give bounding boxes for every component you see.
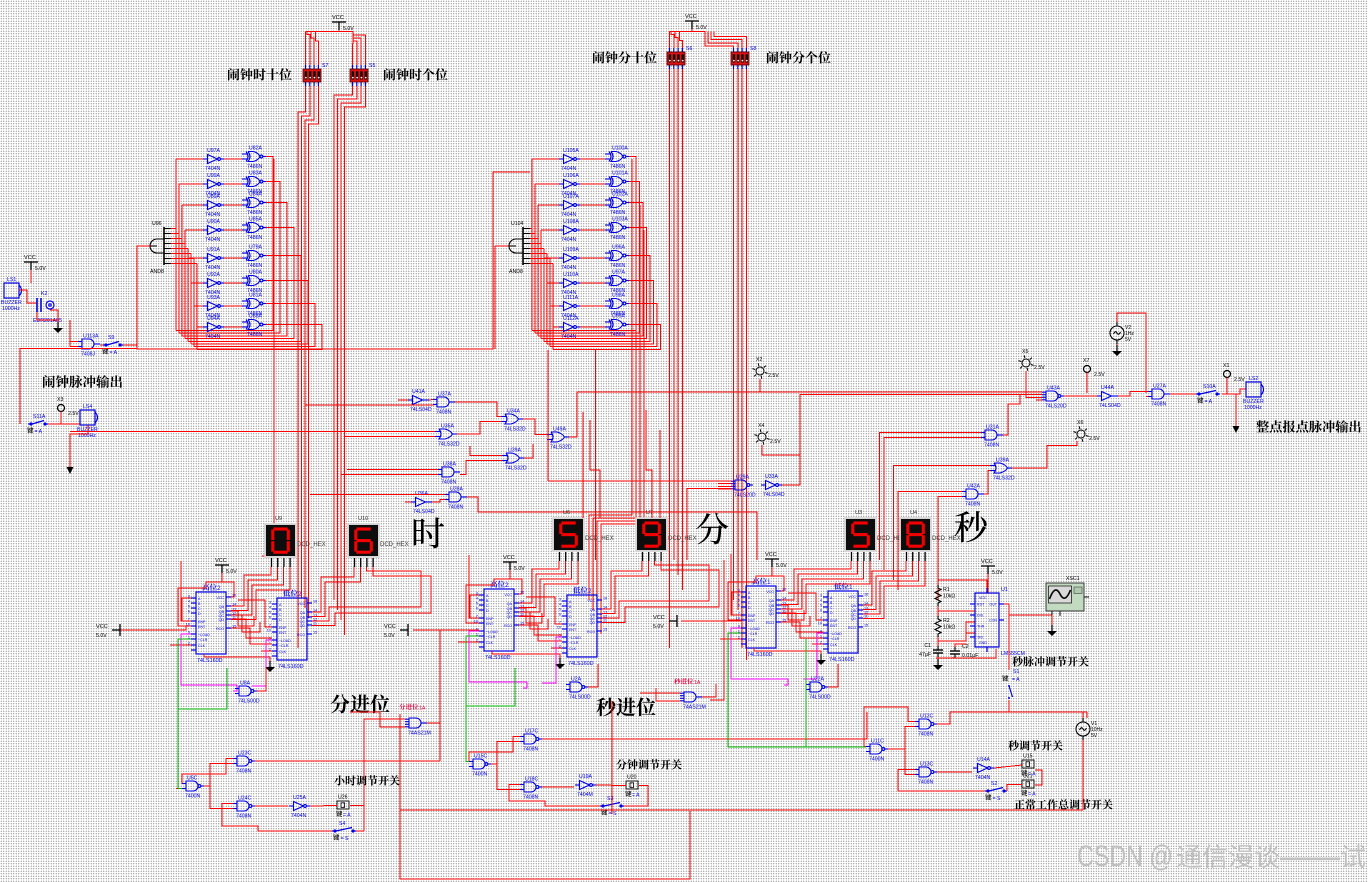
wire row 0 input feed (176, 158, 203, 160)
wire U104 output to alarm line (495, 245, 509, 247)
wire display1 pin 0 (519, 561, 559, 603)
svg-text:RCO: RCO (216, 627, 224, 631)
svg-text:U27A: U27A (1153, 384, 1167, 390)
svg-text:7408N: 7408N (918, 732, 934, 738)
AND gate U24C (233, 801, 255, 811)
wire S5 riser 3 (353, 38, 361, 65)
svg-text:QD: QD (851, 617, 857, 621)
wire S6 descender 1 (669, 69, 671, 648)
wire S7 descender 4 (309, 86, 319, 618)
svg-text:VCC: VCC (24, 255, 36, 261)
svg-text:7404N: 7404N (975, 775, 991, 781)
svg-text:74LS160D: 74LS160D (829, 657, 855, 663)
svg-text:U1: U1 (1001, 587, 1008, 593)
svg-text:QD: QD (769, 612, 775, 616)
wire VCC to counters (222, 570, 234, 597)
wire XOR row 7 output return (553, 325, 661, 350)
svg-text:U15C: U15C (474, 754, 488, 760)
wire display2 pin 2 (312, 567, 421, 621)
svg-text:= A: = A (1012, 677, 1020, 683)
counter IC 高位1 74LS160D (741, 586, 781, 648)
XOR gate U81A (242, 299, 266, 309)
wire display2 pin 1 (863, 561, 912, 610)
svg-text:U103A: U103A (612, 217, 628, 223)
svg-text:~LOAD: ~LOAD (830, 632, 842, 636)
wire display2 pin 3 (863, 561, 925, 619)
svg-text:QA: QA (219, 605, 225, 609)
svg-text:U14A: U14A (977, 757, 991, 763)
probe X1 (1224, 371, 1231, 378)
buzzer LS2 (1246, 382, 1264, 397)
switch U15 (1022, 760, 1034, 768)
svg-text:5.0V: 5.0V (35, 266, 46, 272)
svg-text:= A: = A (1205, 399, 1213, 405)
wire XOR row 0 output return (532, 157, 636, 331)
svg-text:U82A: U82A (249, 146, 263, 152)
svg-text:S8: S8 (750, 46, 756, 52)
svg-text:C: C (486, 604, 489, 608)
wire U29A inputs from bank2 bundle (718, 480, 731, 482)
inverter U97A (203, 155, 224, 164)
svg-text:U89A: U89A (207, 194, 221, 200)
inverter U89A (203, 201, 224, 210)
svg-text:~LOAD: ~LOAD (279, 639, 291, 643)
wire S8 descender 4 (745, 69, 747, 660)
svg-text:2: 2 (298, 591, 302, 598)
svg-text:74LS20D: 74LS20D (734, 493, 756, 499)
svg-text:CLK: CLK (830, 643, 838, 647)
svg-text:11: 11 (313, 622, 317, 626)
svg-text:U41A: U41A (412, 389, 426, 395)
svg-text:74LS04D: 74LS04D (1099, 403, 1121, 409)
switch U26 (337, 801, 349, 809)
XOR gate U101A (605, 177, 629, 187)
wire display2 pin 3 (602, 561, 719, 623)
svg-text:A: A (569, 600, 572, 604)
wire inverter to XOR row 6 (224, 305, 242, 307)
svg-text:U100A: U100A (612, 146, 628, 152)
svg-text:6: 6 (269, 616, 271, 620)
wire U113A output via S9 to long net (100, 344, 103, 346)
svg-text:7486N: 7486N (247, 263, 263, 269)
svg-text:74LS04D: 74LS04D (410, 407, 432, 413)
wire feed elbow into hour counter (181, 561, 191, 621)
svg-text:C: C (748, 601, 751, 605)
svg-text:~CLR: ~CLR (198, 638, 208, 642)
AND gate U27A (1148, 389, 1170, 399)
svg-text:7486N: 7486N (610, 332, 626, 338)
svg-text:= A: = A (343, 813, 351, 819)
svg-text:= S: = S (341, 836, 349, 842)
wire S7 descender 3 (305, 86, 314, 608)
svg-text:D: D (569, 615, 572, 619)
XOR gate U84A (242, 198, 266, 208)
wire S7 riser 3 (311, 32, 314, 66)
AND gate U23C (233, 756, 255, 766)
svg-text:74LS32D: 74LS32D (438, 442, 460, 448)
svg-text:7404N: 7404N (561, 334, 577, 340)
wire display1 pin 1 (519, 561, 565, 608)
svg-text:U34A: U34A (507, 409, 521, 415)
ground (1051, 625, 1053, 631)
svg-text:U39A: U39A (508, 448, 522, 454)
AND gate U38A (438, 467, 460, 477)
svg-text:RCO: RCO (766, 621, 774, 625)
svg-text:74LS160D: 74LS160D (747, 652, 773, 658)
svg-text:4: 4 (188, 600, 190, 604)
svg-text:VCC: VCC (587, 599, 595, 603)
VCC power symbol (215, 565, 229, 573)
svg-text:U92A: U92A (207, 272, 221, 278)
svg-text:2.5V: 2.5V (1089, 436, 1100, 442)
svg-text:THR: THR (977, 625, 985, 629)
inverter U111A (559, 302, 580, 311)
svg-text:LM555CM: LM555CM (1001, 651, 1025, 657)
ground (1116, 345, 1118, 351)
wire X4 stem (762, 445, 800, 455)
7-segment display U4 (899, 517, 932, 552)
wire display1 pin 1 (231, 567, 277, 611)
svg-text:1: 1 (767, 579, 771, 586)
wire feed elbow into minute counter (469, 555, 479, 618)
XOR gate U79A (242, 251, 266, 261)
wire S8 riser 2 (708, 32, 738, 49)
svg-text:7400N: 7400N (472, 772, 488, 778)
7-segment display U3 (844, 517, 877, 552)
probe X7 (1084, 366, 1091, 373)
svg-text:1A: 1A (694, 680, 701, 686)
svg-text:B: B (198, 602, 201, 606)
wire minute-carry connections (364, 719, 405, 831)
AND8 gate U96 (150, 227, 171, 265)
VCC power symbol (765, 559, 779, 567)
wire XOR row 3 output return (185, 228, 294, 339)
svg-text:DIS: DIS (977, 614, 984, 618)
svg-text:U109A: U109A (563, 247, 579, 253)
wire K2 to ground (50, 310, 58, 328)
svg-text:7486N: 7486N (247, 210, 263, 216)
ground (559, 658, 561, 664)
wire alarm out to LS4 (48, 423, 80, 425)
svg-text:U96A: U96A (612, 245, 626, 251)
capacitor C2 (950, 647, 960, 658)
svg-text:U101A: U101A (612, 171, 628, 177)
svg-text:= S: = S (993, 796, 1001, 802)
wire scope ground (1051, 615, 1053, 625)
wire S5 riser 4 (353, 32, 365, 66)
svg-text:S7: S7 (322, 63, 328, 69)
svg-text:U3: U3 (855, 510, 862, 516)
svg-text:U107A: U107A (563, 194, 579, 200)
wire display1 pin 3 (519, 561, 578, 617)
wire inverter to XOR row 6 (580, 305, 605, 307)
svg-text:U9: U9 (275, 516, 282, 522)
wire VCC to LS1 (30, 270, 32, 283)
svg-text:U44A: U44A (1101, 385, 1115, 391)
svg-text:47µF: 47µF (919, 652, 931, 658)
AND gate U11C (866, 744, 888, 754)
svg-text:7486N: 7486N (610, 263, 626, 269)
wire S8 descender 1 (733, 69, 735, 600)
svg-text:2: 2 (588, 588, 592, 595)
svg-text:10: 10 (267, 629, 271, 633)
svg-text:U35A: U35A (441, 424, 455, 430)
7-segment display U7 (635, 517, 668, 552)
VCC power symbol (332, 22, 346, 30)
wire S8 riser 3 (711, 32, 742, 49)
svg-text:QA: QA (590, 608, 596, 612)
wire inverter to XOR row 1 (580, 183, 605, 185)
svg-text:B: B (830, 601, 833, 605)
svg-text:~LOAD: ~LOAD (748, 627, 760, 631)
svg-text:U13C: U13C (920, 762, 934, 768)
svg-text:LS4: LS4 (83, 404, 92, 410)
XOR gate U100A (605, 152, 629, 162)
svg-text:~LOAD: ~LOAD (198, 633, 210, 637)
svg-text:74LS32D: 74LS32D (504, 427, 526, 433)
555 timer U1 LM555CM (970, 588, 1004, 652)
wire S7 riser 2 (307, 32, 310, 66)
7-segment display U6 (552, 517, 585, 552)
svg-text:B: B (748, 596, 751, 600)
AND gate U18C (520, 782, 542, 792)
svg-text:7404N: 7404N (205, 334, 221, 340)
svg-text:S2: S2 (991, 781, 997, 787)
wire display2 pin 0 (863, 561, 906, 605)
svg-text:5.0V: 5.0V (992, 570, 1003, 576)
wire S5 descender 4 (345, 86, 366, 635)
wire long bottom rail (400, 809, 1083, 811)
wire stair mesh (781, 605, 804, 620)
svg-text:ENP: ENP (279, 626, 287, 630)
AND gate U113A (78, 339, 100, 349)
svg-text:U37A: U37A (438, 392, 452, 398)
svg-text:7408J: 7408J (81, 352, 96, 358)
XOR gate U103A (605, 223, 629, 233)
switch S3 (600, 803, 624, 808)
wire X5 stem (1026, 371, 1042, 397)
inverter U109A (559, 254, 580, 263)
wire display1 pin 2 (781, 561, 864, 609)
svg-text:QA: QA (851, 604, 857, 608)
wire S6 descender 3 (677, 69, 679, 575)
wire S5 riser 1 (352, 44, 355, 65)
svg-text:VCC: VCC (766, 590, 774, 594)
svg-text:2.5V: 2.5V (1234, 377, 1245, 383)
svg-text:16: 16 (603, 597, 607, 601)
inverter U14A (973, 764, 994, 773)
svg-text:S4: S4 (339, 821, 345, 827)
svg-text:7408N: 7408N (236, 814, 252, 820)
wire VCC to counters (510, 567, 522, 594)
counter IC 低位2 74LS160D (272, 598, 312, 660)
wire stair mesh (231, 611, 254, 626)
svg-text:C1: C1 (924, 643, 931, 649)
svg-text:VCC: VCC (685, 14, 697, 20)
svg-text:U113A: U113A (83, 334, 99, 340)
svg-text:U25A: U25A (293, 795, 307, 801)
wire display1 pin 1 (781, 561, 857, 605)
wire row 7 input feed (197, 326, 203, 328)
VCC power symbol (503, 562, 517, 570)
VCC power symbol (685, 21, 699, 29)
svg-text:CLK: CLK (569, 647, 577, 651)
VCC power symbol (669, 615, 677, 627)
ground (937, 659, 939, 665)
svg-text:6: 6 (738, 604, 740, 608)
XOR gate U98A (605, 299, 629, 309)
wire S8 riser 1 (705, 32, 734, 49)
wire display2 pin 3 (312, 567, 431, 626)
svg-text:CON: CON (989, 619, 997, 623)
wire green hour enable (178, 668, 227, 709)
svg-text:74AS21M: 74AS21M (408, 731, 431, 737)
wire 555 vcc (987, 574, 989, 593)
wire display1 pin 0 (781, 561, 851, 600)
wire inverter to XOR row 5 (224, 282, 242, 284)
svg-text:1000Hz: 1000Hz (2, 306, 20, 312)
svg-text:ENP: ENP (748, 614, 756, 618)
svg-text:VCC: VCC (504, 593, 512, 597)
OR gate U34A (501, 414, 523, 424)
wire feed elbow into second counter (731, 554, 741, 615)
wire vcc side hour (413, 629, 479, 631)
ground (269, 661, 271, 667)
svg-text:ENT: ENT (830, 624, 838, 628)
svg-text:RCO: RCO (297, 633, 305, 637)
svg-text:7404N: 7404N (561, 265, 577, 271)
svg-text:5V: 5V (1091, 733, 1098, 739)
svg-text:4: 4 (820, 599, 822, 603)
svg-text:5: 5 (188, 605, 190, 609)
svg-text:U42A: U42A (967, 484, 981, 490)
VCC power symbol (24, 262, 38, 270)
svg-text:74LS00D: 74LS00D (809, 695, 831, 701)
svg-text:U111A: U111A (563, 295, 579, 301)
svg-text:DCD_HEX: DCD_HEX (380, 542, 409, 548)
svg-text:4: 4 (559, 603, 561, 607)
svg-text:AND8: AND8 (509, 269, 523, 275)
lamp X4 (754, 429, 769, 445)
svg-text:74AS21M: 74AS21M (683, 705, 706, 711)
svg-text:5: 5 (820, 604, 822, 608)
svg-text:CLK: CLK (486, 641, 494, 645)
svg-text:= A: = A (35, 429, 43, 435)
wire inverter to XOR row 3 (580, 229, 605, 231)
wire long mid verticals (547, 350, 549, 481)
svg-text:A: A (198, 597, 201, 601)
wire S7 descender 1 (298, 86, 306, 648)
wire row 3 input feed (185, 229, 203, 231)
svg-text:ENT: ENT (279, 631, 287, 635)
svg-text:D: D (748, 606, 751, 610)
svg-text:DCD_HEX: DCD_HEX (585, 536, 614, 542)
svg-text:= A: = A (1028, 792, 1036, 798)
svg-text:5: 5 (559, 608, 561, 612)
wire hour adjust loops (204, 764, 233, 787)
svg-text:U26: U26 (338, 795, 348, 801)
svg-text:5: 5 (476, 602, 478, 606)
wire ground link (492, 651, 560, 658)
AC source V2 (1110, 322, 1124, 344)
svg-text:S10A: S10A (1203, 384, 1216, 390)
svg-text:74LS04D: 74LS04D (413, 509, 435, 515)
wire inverter to XOR row 7 (580, 326, 605, 328)
svg-text:U23C: U23C (238, 751, 252, 757)
svg-text:10: 10 (818, 622, 822, 626)
XOR gate U97A (605, 276, 629, 286)
switch S1 lever (1008, 685, 1010, 687)
svg-text:U15: U15 (1023, 754, 1033, 760)
svg-text:X2: X2 (756, 357, 762, 363)
inverter U33A (761, 481, 782, 490)
svg-text:2.5V: 2.5V (1034, 365, 1045, 371)
svg-text:LS1: LS1 (7, 277, 16, 283)
svg-text:7404N: 7404N (561, 212, 577, 218)
resistor R1 (935, 585, 941, 606)
svg-text:U106A: U106A (563, 173, 579, 179)
wire second adjust loops (888, 727, 915, 750)
wire display1 pin 3 (231, 567, 290, 620)
svg-text:7408N: 7408N (984, 443, 1000, 449)
svg-text:5.0V: 5.0V (226, 569, 237, 575)
svg-text:74LS32D: 74LS32D (993, 476, 1015, 482)
VCC power symbol (981, 566, 995, 574)
relay K2 EDR201A05 (37, 298, 54, 312)
XOR gate U85A (242, 223, 266, 233)
wire S7 riser 1 (305, 32, 307, 66)
svg-text:5.0V: 5.0V (384, 633, 395, 639)
wire inverter to XOR row 0 (580, 158, 605, 160)
wire inverter to XOR row 2 (580, 204, 605, 206)
wire inverter to XOR row 0 (224, 158, 242, 160)
svg-text:VCC: VCC (981, 559, 993, 565)
svg-text:B: B (279, 608, 282, 612)
wire S5 descender 2 (338, 86, 357, 610)
svg-text:QA: QA (507, 602, 513, 606)
wire XOR row 6 output return (550, 304, 657, 347)
ground (820, 654, 822, 660)
svg-text:2: 2 (217, 585, 221, 592)
svg-text:C: C (198, 607, 201, 611)
svg-text:U104: U104 (511, 221, 524, 227)
svg-text:U81A: U81A (249, 293, 263, 299)
wire row 6 input feed (550, 305, 559, 307)
wire S7 riser 4 (315, 32, 318, 66)
svg-text:U85A: U85A (249, 217, 263, 223)
svg-text:U49A: U49A (553, 427, 567, 433)
wire S8 descender 3 (741, 69, 743, 648)
svg-text:GND: GND (979, 641, 987, 645)
buzzer LS4 (80, 410, 98, 425)
wire top-left VCC rail (306, 31, 354, 33)
svg-text:A: A (279, 603, 282, 607)
lamp X6 (1073, 426, 1088, 442)
svg-text:QD: QD (590, 621, 596, 625)
svg-text:16: 16 (864, 593, 868, 597)
wire S5 riser 2 (353, 41, 357, 65)
wire XOR row 4 output return (544, 256, 650, 342)
svg-text:QD: QD (219, 618, 225, 622)
svg-text:ENT: ENT (569, 628, 577, 632)
svg-text:74LS32D: 74LS32D (505, 466, 527, 472)
switch U21 (1022, 780, 1034, 788)
svg-text:74LS04D: 74LS04D (763, 492, 785, 498)
svg-text:RCO: RCO (587, 630, 595, 634)
svg-text:5.0V: 5.0V (776, 563, 787, 569)
wire LS1 to K2 (19, 290, 37, 303)
wire stair mesh (519, 608, 542, 623)
